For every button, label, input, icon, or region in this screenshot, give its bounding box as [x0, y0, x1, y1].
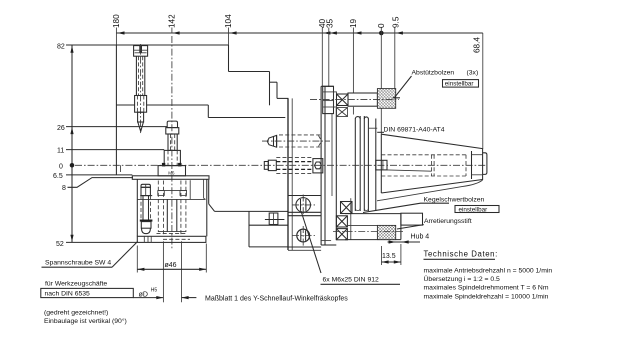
- cone bore dashed bottom: [381, 175, 466, 177]
- screw 2 slot lines: [301, 230, 306, 240]
- label 19: [349, 18, 358, 28]
- spindle housing left edge: [136, 179, 138, 236]
- label 52: [56, 241, 64, 248]
- locking pin housing right edge: [400, 214, 402, 240]
- leader 6x M6x25: [301, 211, 321, 273]
- label 104: [224, 14, 233, 28]
- svg-text:6x M6x25 DIN 912: 6x M6x25 DIN 912: [323, 277, 380, 284]
- support bolt axis: [310, 99, 399, 101]
- svg-text:Technische Daten:: Technische Daten:: [424, 250, 498, 259]
- bracket divider lines: [323, 92, 334, 107]
- top screw bush inner dashed right: [143, 96, 145, 113]
- ordinate line 52: [66, 241, 137, 243]
- label 26: [57, 125, 65, 132]
- clamp screw head slot: [145, 184, 147, 195]
- leader Kegelschwertbolzen: [363, 203, 449, 212]
- 13.5 ext line left: [381, 246, 383, 265]
- label Abstuetzbolzen: [412, 70, 455, 77]
- locking pin housing second line: [348, 224, 377, 226]
- bearing cross box lower: [336, 229, 347, 240]
- label o46: [165, 262, 177, 269]
- label nach DIN 6535: [45, 291, 91, 298]
- svg-text:68.4: 68.4: [473, 37, 482, 53]
- tech data line 4: [424, 293, 549, 300]
- bracket small rect: [334, 92, 337, 107]
- label Hub 4: [411, 234, 430, 241]
- oD extension line left: [162, 241, 164, 302]
- screw head circle 1: [296, 198, 311, 213]
- oD arrow right: [182, 296, 189, 299]
- label 11: [57, 148, 64, 155]
- support bolt knurl: [377, 89, 395, 109]
- body step vertical small: [276, 82, 278, 98]
- extension line x=19: [352, 28, 354, 115]
- label 40: [318, 18, 327, 28]
- top dim origin dot at 0: [379, 31, 384, 36]
- extension line x=40: [321, 28, 323, 87]
- center stud nut block: [313, 159, 323, 173]
- 13.5 arrow right: [394, 260, 401, 263]
- tech data line 3: [424, 284, 549, 291]
- key top face line: [369, 127, 377, 129]
- V-flange vertical 1: [354, 119, 356, 212]
- o46 arrow right: [199, 268, 206, 271]
- screw 1 centerline: [292, 195, 315, 216]
- svg-text:H5: H5: [151, 287, 158, 293]
- o46 dimension line: [137, 268, 206, 270]
- stud block inner dashed left: [167, 150, 169, 165]
- label Arretierungsstift: [424, 218, 472, 225]
- ordinate line 11: [66, 149, 164, 151]
- o46 arrow left: [137, 268, 144, 271]
- top screw head slot: [139, 46, 142, 53]
- support bolt bracket: [323, 86, 334, 113]
- label 6.5: [53, 173, 63, 180]
- underline Technische Daten: [424, 258, 496, 260]
- svg-text:DIN 69871-A40-AT4: DIN 69871-A40-AT4: [384, 127, 445, 134]
- cone inner vertical: [471, 151, 473, 179]
- stud block inner dashed right: [176, 150, 178, 165]
- collet bore dashed right: [180, 181, 182, 237]
- upper M6 axis: [262, 140, 330, 142]
- housing inner vertical right: [189, 180, 191, 199]
- label 3x: [467, 70, 479, 77]
- extension line x=68.4 cone tip: [482, 33, 484, 149]
- collet bore dashed right outer: [185, 181, 187, 233]
- svg-text:ø46: ø46: [165, 262, 177, 269]
- label 180: [112, 14, 121, 28]
- key side line: [387, 170, 432, 171]
- center stud tip: [264, 162, 268, 170]
- svg-text:Maßblatt 1 des Y-Schnellauf-Wi: Maßblatt 1 des Y-Schnellauf-Winkelfräsko…: [205, 295, 348, 302]
- screws block seam lines: [288, 212, 321, 215]
- spindle housing inner step: [137, 198, 205, 200]
- stud collar: [166, 128, 179, 134]
- tech data line 2: [424, 275, 501, 283]
- main flange vertical 1: [320, 86, 322, 245]
- label 6x M6x25: [323, 277, 380, 284]
- label Massblatt: [205, 295, 348, 302]
- body lower right vertical: [208, 180, 210, 204]
- top screw bush inner dashed left: [136, 96, 138, 113]
- label einstellbar 2: [459, 206, 488, 213]
- svg-text:6.5: 6.5: [53, 173, 63, 180]
- top dim tick arrow at 142: [173, 31, 180, 34]
- cone inner bottom line: [472, 174, 483, 176]
- Hub arrow right-pointing: [389, 240, 396, 243]
- stud centerline: [171, 36, 173, 250]
- label Einbaulage: [44, 317, 127, 325]
- hidden edge tick near body left: [120, 165, 122, 172]
- top dim tick arrow at 35: [330, 31, 337, 34]
- top screw head: [134, 46, 148, 57]
- ordinate jog line 8: [68, 178, 134, 188]
- main flange vertical 4: [335, 108, 337, 240]
- top screw thread dashed left: [138, 56, 140, 95]
- cone end face: [482, 149, 484, 180]
- V-flange vertical 3: [363, 116, 365, 211]
- box nach DIN 6535: [41, 288, 134, 297]
- stud black corner right: [178, 163, 181, 167]
- center stud hole dashed top: [276, 157, 313, 159]
- bottom band foot ticks: [144, 236, 151, 242]
- svg-text:13.5: 13.5: [382, 253, 396, 260]
- main flange top edge: [321, 85, 333, 87]
- screw 1 slot lines: [301, 199, 306, 211]
- left dim arrow at 82: [70, 46, 73, 53]
- spindle housing bottom band: [137, 236, 206, 242]
- clamp screw nut: [141, 222, 151, 229]
- V-flange vertical 5: [375, 119, 377, 212]
- underline Spannschraube: [42, 266, 113, 268]
- label Spannschraube: [45, 260, 111, 267]
- tech data line 1: [424, 267, 553, 274]
- o46 extension line left: [136, 246, 138, 273]
- drive key block: [376, 160, 387, 170]
- collet bore solid right: [176, 199, 178, 231]
- label 35: [325, 18, 334, 28]
- ordinate line 26: [66, 126, 167, 128]
- stud black corner left: [162, 163, 165, 167]
- clamp screw washer line: [140, 195, 152, 197]
- V-flange vertical 2: [359, 116, 361, 211]
- housing shelf block right: [180, 191, 187, 196]
- upper M6 stud tip: [267, 135, 276, 147]
- screws block bottom: [288, 247, 321, 250]
- upper M6 stud collar: [274, 135, 277, 147]
- svg-text:9.5: 9.5: [391, 16, 400, 28]
- svg-text:Abstützbolzen: Abstützbolzen: [412, 70, 455, 77]
- top screw neck: [138, 112, 144, 122]
- upper M6 end chamfer dashes: [319, 136, 322, 147]
- cone bottom edge: [381, 180, 482, 194]
- label gedreht gezeichnet: [44, 310, 108, 317]
- svg-text:Einbaulage ist vertikal (90°): Einbaulage ist vertikal (90°): [44, 317, 127, 325]
- top dim tick arrow at 9.5: [396, 31, 403, 34]
- bearing cross box upper: [341, 202, 353, 214]
- einstellbar box 2: [455, 206, 499, 213]
- body step vertical: [269, 72, 271, 106]
- left ordinate dimension line: [71, 45, 73, 242]
- svg-text:maximale Antriebsdrehzahl n =: maximale Antriebsdrehzahl n = 5000 1/min: [424, 267, 553, 274]
- svg-text:maximale Spindeldrehzahl = 100: maximale Spindeldrehzahl = 10000 1/min: [424, 293, 549, 300]
- locking pin knurl: [377, 225, 395, 239]
- flange plate second vertical: [291, 98, 293, 250]
- top screw shaft right: [144, 56, 146, 95]
- cone tip cap: [483, 153, 487, 175]
- svg-text:einstellbar: einstellbar: [445, 81, 474, 88]
- clamp screw dome tip: [142, 228, 151, 233]
- lower block bottom: [249, 246, 288, 248]
- locking pin axis: [333, 231, 404, 233]
- bearing right edge: [350, 198, 352, 240]
- cone bore dashed vertical 2: [465, 155, 467, 176]
- screws block top: [288, 195, 321, 197]
- top screw shaft left: [135, 56, 137, 95]
- locking pin housing top: [345, 213, 401, 215]
- label H5: [151, 287, 158, 293]
- 13.5 dim line: [382, 261, 401, 263]
- 13.5 arrow left: [382, 260, 389, 263]
- stop bracket: [401, 213, 423, 225]
- center stud hex socket: [315, 162, 322, 169]
- body bottom edge: [215, 210, 288, 212]
- bottom band center dashes: [163, 238, 190, 240]
- top dim tick arrow at 40: [323, 31, 330, 34]
- spindle housing inner right vertical: [203, 179, 205, 198]
- drive key divider: [382, 160, 384, 170]
- extension line x=35: [328, 28, 330, 88]
- einstellbar box 1: [443, 80, 479, 88]
- svg-text:Arretierungsstift: Arretierungsstift: [424, 218, 472, 225]
- body internal shelf lower: [208, 117, 285, 119]
- cone bore dashed top: [381, 154, 466, 156]
- screw head circle 2: [297, 229, 310, 242]
- spindle housing top plate: [132, 176, 209, 180]
- small square cross line: [265, 213, 285, 225]
- svg-text:Kegelschwertbolzen: Kegelschwertbolzen: [424, 196, 485, 203]
- underline 6x M6x25: [321, 283, 401, 285]
- label 142: [167, 14, 176, 28]
- cone top edge: [381, 134, 482, 148]
- clamp screw cap: [141, 184, 150, 187]
- center stud hole dashed bottom: [276, 172, 313, 174]
- svg-text:0: 0: [377, 23, 386, 28]
- extension line x=142 centerline of stud: [171, 28, 173, 34]
- housing shelf line: [158, 190, 187, 192]
- cone bore dashed vertical pair: [432, 155, 435, 176]
- main flange bottom edge: [321, 241, 337, 245]
- lower block left edge: [248, 211, 250, 247]
- left dim arrow at 52: [70, 235, 73, 242]
- body step vertical x=104: [228, 45, 230, 72]
- top dim tick arrow at 180: [117, 31, 124, 34]
- collet bore solid left: [166, 199, 168, 231]
- label DIN 69871: [384, 127, 445, 134]
- lower block divider: [249, 224, 288, 226]
- ordinate line 82: [66, 44, 116, 46]
- svg-text:8: 8: [62, 185, 66, 192]
- svg-text:für Werkzeugschäfte: für Werkzeugschäfte: [45, 280, 107, 287]
- top ordinate dimension line: [116, 32, 482, 34]
- upper M6 hole dashed top: [279, 134, 322, 136]
- collet bore dashed left outer: [157, 181, 159, 233]
- extension line x=180: [115, 28, 117, 46]
- extension line x=0: [380, 28, 382, 135]
- body bottom chamfer: [209, 204, 215, 212]
- leader Abstuetzbolzen: [393, 76, 412, 98]
- label M6 tiny: [168, 171, 175, 176]
- body top edge second level: [229, 71, 270, 73]
- top screw centerline: [140, 44, 142, 133]
- top dim tick arrow at 104: [230, 31, 237, 34]
- housing shelf block left: [158, 191, 165, 196]
- svg-text:(gedreht gezeichnet!): (gedreht gezeichnet!): [44, 310, 108, 317]
- tip reference line: [377, 180, 483, 201]
- leader DIN 69871: [377, 131, 384, 133]
- label 68.4: [473, 37, 482, 53]
- svg-text:Übersetzung i = 1:2 = 0.5: Übersetzung i = 1:2 = 0.5: [424, 275, 501, 283]
- label 0: [377, 23, 386, 28]
- label 0 left: [59, 164, 63, 171]
- label 8: [62, 185, 66, 192]
- bearing cross box middle: [336, 216, 347, 227]
- svg-text:Hub 4: Hub 4: [411, 234, 430, 241]
- main horizontal centerline axis y=165.3: [75, 164, 487, 166]
- top screw tip cone: [138, 122, 144, 132]
- center stud thread dashed top: [276, 161, 313, 163]
- svg-text:180: 180: [112, 14, 121, 28]
- stud shaft: [168, 134, 177, 150]
- o46 extension line right: [205, 244, 207, 273]
- svg-text:104: 104: [224, 14, 233, 28]
- extension line x=9.5: [394, 28, 396, 90]
- label einstellbar 1: [445, 81, 474, 88]
- label 9.5: [391, 16, 400, 28]
- body internal shelf upper: [116, 104, 208, 106]
- svg-text:19: 19: [349, 18, 358, 28]
- 13.5 ext line right: [400, 244, 402, 265]
- small square fitting: [269, 213, 278, 225]
- ordinate line 6.5: [66, 174, 132, 176]
- main flange vertical 3: [331, 114, 333, 196]
- svg-text:Spannschraube SW 4: Spannschraube SW 4: [45, 260, 111, 267]
- clamp screw shaft dashed: [141, 196, 151, 220]
- extension line x=104: [228, 28, 230, 72]
- svg-text:einstellbar: einstellbar: [459, 206, 488, 213]
- V-flange top arcs: [355, 117, 368, 119]
- leader Arretierungsstift: [397, 225, 424, 229]
- main body top edge: [116, 44, 228, 46]
- svg-text:(3x): (3x): [467, 70, 479, 77]
- top screw head slot base line: [134, 50, 148, 53]
- label oD: [139, 291, 148, 298]
- body left edge: [115, 45, 117, 175]
- stud cap: [167, 121, 177, 128]
- svg-text:82: 82: [57, 43, 65, 50]
- svg-text:maximales Spindeldrehmoment T: maximales Spindeldrehmoment T = 6 Nm: [424, 284, 549, 291]
- cone inner top line: [472, 154, 483, 156]
- clamp screw shaft: [143, 196, 149, 220]
- svg-text:142: 142: [167, 14, 176, 28]
- label Kegelschwertbolzen: [424, 196, 485, 203]
- svg-text:11: 11: [57, 148, 64, 155]
- body top edge fourth level: [277, 97, 288, 99]
- V-flange vertical 4: [367, 119, 369, 212]
- top dim tick arrow at 19: [354, 31, 361, 34]
- upper M6 hole dashed bottom: [279, 146, 322, 148]
- svg-text:0: 0: [59, 164, 63, 171]
- label 13.5: [382, 253, 396, 260]
- label Technische Daten: [424, 250, 498, 259]
- oD extension line right: [181, 241, 183, 302]
- Hub dim line: [388, 241, 421, 243]
- label 82: [57, 43, 65, 50]
- svg-text:35: 35: [325, 18, 334, 28]
- spindle housing right edge: [206, 179, 208, 236]
- screws block left bold edge: [287, 98, 289, 250]
- support bolt cylinder: [348, 93, 377, 106]
- oD dim line right segment: [182, 297, 197, 299]
- center stud thread dashed bottom: [276, 168, 313, 170]
- center stud collar: [268, 160, 276, 170]
- oD arrow left: [156, 296, 163, 299]
- Hub arrow left-pointing: [402, 240, 409, 243]
- main flange vertical 2: [324, 86, 326, 245]
- svg-text:52: 52: [56, 241, 64, 248]
- support bolt cross box: [337, 94, 349, 106]
- top screw thread dashed right: [142, 56, 144, 95]
- oD dim line left segment: [133, 297, 163, 299]
- clamp screw black band: [140, 220, 153, 222]
- V-flange bottom arcs: [355, 209, 368, 211]
- stud block: [164, 150, 180, 165]
- stud base: [158, 166, 185, 176]
- collet bottom line: [157, 232, 188, 234]
- body top edge third level: [270, 81, 278, 83]
- svg-text:nach DIN 6535: nach DIN 6535: [45, 291, 91, 298]
- locking pin housing bottom: [345, 239, 401, 241]
- leader Spannschraube: [112, 242, 138, 268]
- stud shaft inner dashed: [171, 134, 175, 150]
- top screw bush: [135, 96, 147, 113]
- clamp screw head: [141, 187, 150, 195]
- collet bore dashed left: [163, 181, 165, 237]
- upper bearing small box: [337, 108, 348, 117]
- gauge plane vertical cone base: [380, 134, 382, 193]
- spindle housing inner chamfer: [204, 198, 206, 199]
- left dim arrow at 26: [70, 127, 73, 134]
- screw 2 centerline: [292, 226, 315, 247]
- svg-text:26: 26: [57, 125, 65, 132]
- label fuer Werkzeugschaefte: [45, 280, 107, 287]
- left dim origin dot 0: [70, 163, 75, 168]
- body internal shelf step: [207, 105, 209, 118]
